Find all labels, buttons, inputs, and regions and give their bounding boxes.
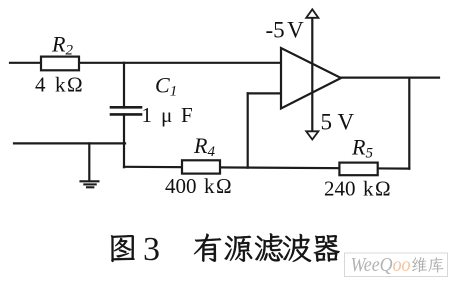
power arrow up	[306, 9, 318, 17]
resistor R5	[339, 163, 377, 176]
wire output	[341, 76, 439, 78]
op-amp U1	[281, 48, 341, 109]
svg-text:1μF: 1μF	[142, 103, 193, 127]
wire ground stub	[88, 143, 90, 181]
svg-text:WeeQoo: WeeQoo	[351, 254, 411, 276]
svg-text:240kΩ: 240kΩ	[324, 177, 391, 201]
svg-text:400kΩ: 400kΩ	[165, 174, 232, 198]
wire input top	[10, 62, 281, 64]
wire feedback to op-amp input	[248, 92, 281, 94]
wire capacitor bottom lead	[123, 114, 125, 167]
wire feedback vertical	[247, 93, 249, 167]
svg-text:R2: R2	[51, 32, 73, 59]
svg-text:4kΩ: 4kΩ	[35, 73, 83, 97]
svg-text:C1: C1	[155, 73, 177, 100]
svg-text:-5V: -5V	[266, 18, 305, 43]
svg-text:R4: R4	[193, 133, 215, 160]
resistor R4	[182, 160, 220, 173]
wire output branch	[408, 78, 410, 169]
capacitor C1	[111, 107, 141, 114]
power arrow down	[306, 131, 318, 139]
wire power vertical	[311, 18, 313, 132]
wire lower left	[14, 142, 125, 144]
wire bottom run	[124, 167, 409, 169]
watermark WeeQoo维库	[345, 253, 448, 277]
caption: 图 3 有源滤波器	[111, 231, 340, 268]
svg-text:3: 3	[143, 231, 160, 268]
resistor R2	[41, 57, 79, 71]
svg-text:5V: 5V	[321, 110, 355, 135]
ground	[81, 181, 99, 187]
wire capacitor top lead	[123, 63, 125, 108]
svg-text:R5: R5	[351, 135, 373, 162]
